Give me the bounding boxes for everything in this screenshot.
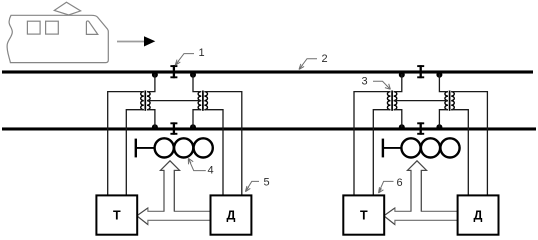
svg-text:5: 5 <box>264 177 270 189</box>
insulated joint bottom rail left section <box>170 122 177 134</box>
pantograph diamond <box>54 2 80 15</box>
svg-text:Д: Д <box>474 209 483 223</box>
choke transformer DT1 signal winding <box>141 92 144 110</box>
loco coil circle 3 <box>194 138 213 157</box>
choke transformer DT4 signal winding <box>451 92 454 110</box>
svg-text:4: 4 <box>208 165 214 177</box>
box D left section <box>211 195 252 234</box>
choke transformer DT1 core <box>144 91 146 111</box>
leader for label 4 <box>188 158 206 170</box>
junction dot top rail DT1 <box>152 72 158 78</box>
wire DT1 main bottom to rail <box>147 110 155 128</box>
rail bottom <box>2 127 536 130</box>
choke transformer DT4 main winding <box>445 92 448 110</box>
svg-text:2: 2 <box>322 53 328 65</box>
leader for label 3 <box>373 81 390 89</box>
choke transformer DT3 core <box>391 91 393 111</box>
leader for label 5 <box>245 181 259 191</box>
svg-text:Т: Т <box>113 209 121 223</box>
wire DT3 signal top to T box <box>354 92 391 196</box>
junction dot bottom rail DT1 <box>152 124 158 130</box>
wire DT3 main bottom to rail <box>394 110 402 128</box>
wire DT2 main top to rail <box>193 74 201 92</box>
loco coil circle 6 <box>440 138 459 157</box>
loco coils symbol left: terminal bar <box>135 139 137 158</box>
box D right section <box>458 195 499 234</box>
train direction arrow shaft <box>117 41 146 43</box>
wire DT2 main bottom to rail <box>193 110 201 128</box>
choke transformer DT4 core <box>449 91 451 111</box>
wire DT4 main top to rail <box>439 74 448 92</box>
choke transformer DT2 main winding <box>198 92 201 110</box>
wire DT1 main top to rail <box>147 74 155 92</box>
wire DT1 signal bottom to T box <box>126 110 144 196</box>
svg-text:6: 6 <box>397 177 403 189</box>
wire DT3 signal bottom to T box <box>373 110 390 196</box>
window 2 <box>46 21 59 34</box>
junction dot bottom rail DT2 <box>190 124 196 130</box>
junction dot bottom rail DT3 <box>399 124 405 130</box>
insulated joint bottom rail right section <box>417 122 424 134</box>
cab window <box>86 21 97 34</box>
train direction arrowhead <box>144 36 155 46</box>
loco coil circle 2 <box>174 138 193 157</box>
wire DT3 main top to rail <box>394 74 402 92</box>
choke transformer DT1 main winding <box>147 92 150 110</box>
loco coil circle 4 <box>401 138 420 157</box>
leader for label 2 <box>299 59 317 70</box>
signal flow outline arrow left section <box>137 161 211 225</box>
leader for label 6 <box>379 181 394 193</box>
choke transformer DT2 signal winding <box>204 92 207 110</box>
junction dot top rail DT2 <box>190 72 196 78</box>
wire DT4 signal bottom to D box <box>451 110 468 196</box>
choke transformer DT2 core <box>202 91 204 111</box>
wire DT2 signal bottom to D box <box>204 110 223 196</box>
insulated joint 1 top rail left section <box>170 65 177 78</box>
loco coils symbol right: lead line <box>383 147 402 149</box>
signal flow outline arrow right section <box>384 161 458 225</box>
wire DT4 main bottom to rail <box>439 110 448 128</box>
jumper between DT3 and DT4 center taps <box>394 100 448 102</box>
junction dot top rail DT4 <box>436 72 442 78</box>
choke transformer DT3 main winding <box>394 92 397 110</box>
locomotive body outline <box>7 15 108 62</box>
junction dot bottom rail DT4 <box>436 124 442 130</box>
loco coil circle 5 <box>421 138 440 157</box>
box T left section <box>96 195 137 234</box>
svg-text:Д: Д <box>227 209 236 223</box>
rail top <box>2 70 533 73</box>
loco coils symbol left: lead line <box>136 147 155 149</box>
window 1 <box>27 21 40 34</box>
svg-text:Т: Т <box>360 209 368 223</box>
leader for label 1 <box>175 54 194 66</box>
jumper between DT1 and DT2 center taps <box>147 100 201 102</box>
insulated joint top rail right section <box>417 65 424 78</box>
box T right section <box>343 195 384 234</box>
svg-text:1: 1 <box>199 47 205 59</box>
loco coils symbol right: terminal bar <box>382 139 384 158</box>
wire DT2 signal top to D box <box>204 92 241 196</box>
svg-text:3: 3 <box>362 76 368 88</box>
wire DT4 signal top to D box <box>451 92 487 196</box>
wire DT1 signal top to T box <box>108 92 144 196</box>
junction dot top rail DT3 <box>399 72 405 78</box>
choke transformer DT3 signal winding <box>387 92 390 110</box>
loco coil circle 1 <box>155 138 174 157</box>
